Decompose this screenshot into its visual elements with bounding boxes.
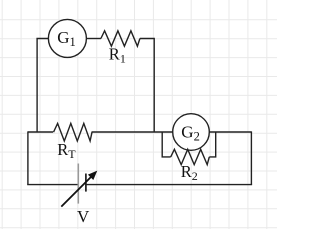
wire RT to G2: [92, 131, 173, 133]
wire left side of loop: [27, 131, 29, 184]
resistor R1: [101, 31, 140, 46]
wire battery to bottom right: [87, 184, 253, 186]
wire R1 right lead down to node: [140, 39, 154, 133]
galvanometer G1: [48, 19, 86, 57]
battery V: variability arrow: [61, 171, 97, 207]
wire middle row left: [28, 131, 53, 133]
wire R2 left stub: [162, 132, 171, 157]
svg-text:RT: RT: [57, 140, 76, 161]
svg-text:R2: R2: [181, 162, 198, 183]
svg-text:V: V: [77, 207, 90, 226]
wire bottom left to battery: [27, 184, 77, 186]
wire G2 right to corner: [209, 131, 251, 133]
wire G1 left lead: [37, 39, 49, 133]
resistor R2: [171, 149, 210, 164]
galvanometer G2: [173, 114, 210, 151]
wire R2 right stub: [209, 132, 215, 157]
battery V (variable source): long plate: [77, 164, 79, 204]
svg-text:R1: R1: [109, 45, 126, 66]
resistor RT: [54, 123, 93, 141]
wire G1 to R1: [86, 38, 101, 40]
wire right side of loop: [250, 131, 252, 184]
battery V: short plate: [85, 174, 87, 192]
